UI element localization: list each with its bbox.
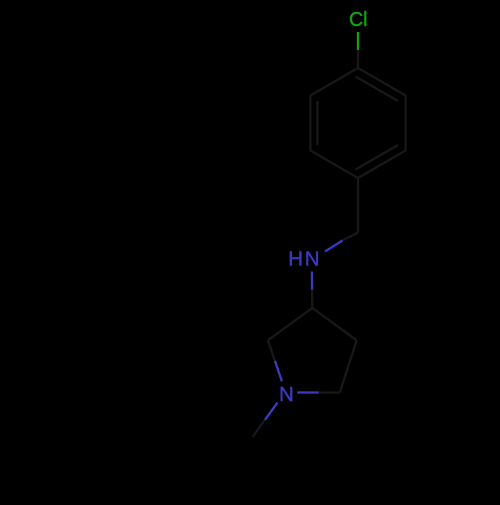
bond Cl-C1 (chlorine half)	[357, 32, 359, 50]
pyrrolidine bond C5p-N1 (carbon half)	[319, 391, 340, 393]
pyrrolidine bond C5p-N1 (nitrogen half)	[297, 391, 318, 393]
pyrrolidine bond C4p-C5p	[340, 340, 357, 392]
pyrrolidine bond C3p-C4p	[312, 308, 356, 340]
bond C4-CH2 benzylic	[357, 178, 359, 233]
svg-text:N: N	[279, 383, 294, 406]
benzene ring edge C3-C4	[358, 151, 406, 179]
benzene double bond inner line C1-C2	[356, 77, 399, 102]
pyrrolidine bond N1-C2p (nitrogen half)	[275, 361, 282, 381]
bond N1-CH3 methyl (carbon half)	[253, 420, 266, 437]
benzene ring edge C1-C2	[358, 68, 406, 96]
bond CH2-N amine (nitrogen half)	[325, 241, 343, 252]
bond Cl-C1 (carbon half)	[357, 50, 359, 68]
benzene ring edge C2-C3	[404, 96, 406, 151]
bond N1-CH3 methyl (nitrogen half)	[265, 403, 277, 420]
svg-text:Cl: Cl	[349, 8, 368, 31]
svg-text:H: H	[288, 248, 303, 271]
pyrrolidine bond N1-C2p (carbon half)	[268, 340, 275, 361]
benzene ring edge C5-C6	[309, 96, 311, 151]
bond CH2-N amine (carbon half)	[343, 233, 359, 241]
svg-text:N: N	[305, 248, 320, 271]
benzene ring edge C4-C5	[310, 151, 358, 179]
bond Namine-C3p (nitrogen half)	[311, 272, 314, 290]
benzene ring edge C6-C1	[310, 68, 358, 96]
bond Namine-C3p (carbon half)	[311, 290, 313, 308]
benzene double bond inner line C3-C4	[356, 145, 399, 170]
pyrrolidine bond C2p-C3p	[268, 308, 312, 340]
benzene double bond inner line C5-C6	[316, 101, 318, 145]
